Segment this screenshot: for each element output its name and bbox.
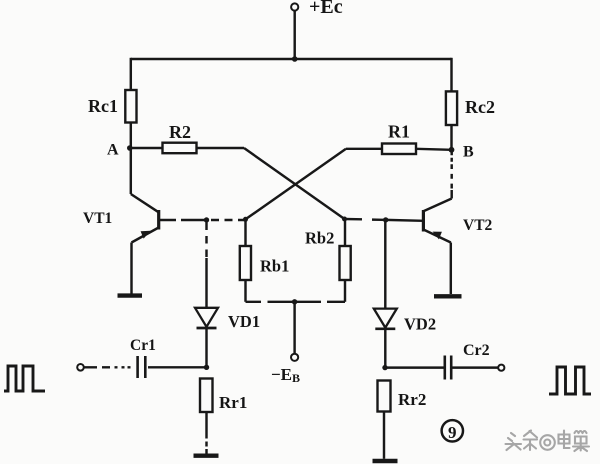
junction dot Rb2 node	[342, 217, 347, 222]
wire -EB rail	[246, 301, 346, 303]
svg-text:Rb2: Rb2	[305, 229, 334, 248]
resistor Rr2	[378, 381, 391, 412]
svg-text:Rr2: Rr2	[398, 390, 426, 409]
svg-text:Cr1: Cr1	[130, 337, 156, 354]
wire top rail	[131, 58, 452, 60]
resistor R1	[382, 144, 416, 155]
resistor R2	[163, 143, 197, 154]
wire diagonal R1 to VT1 base node	[246, 149, 347, 220]
svg-text:VT2: VT2	[463, 217, 493, 234]
wire R1 to cross-coupling diagonal	[346, 148, 382, 150]
wire Rb1 node down to Rb1	[244, 219, 246, 246]
svg-text:Rc1: Rc1	[88, 96, 118, 116]
wire VD2 to Cr2 junction	[384, 329, 386, 368]
wire VD2 drop from base line	[384, 220, 386, 308]
diode VD1	[195, 308, 218, 328]
wire node A down to VT1 collector	[130, 148, 132, 194]
svg-text:+Ec: +Ec	[309, 0, 343, 18]
wire VT1 collector diagonal	[131, 194, 159, 212]
wire Rb2 node down to Rb2	[344, 219, 346, 246]
wire Cr2 to output terminal	[453, 366, 499, 368]
resistor Rb1	[240, 246, 251, 280]
wire R2 to cross-coupling diagonal	[197, 147, 245, 149]
junction dot at VD2 tap on VT2 base line	[383, 217, 388, 222]
wire VT1 emitter down	[130, 243, 132, 294]
ground (below Rr2)	[373, 459, 398, 463]
wire Rc1 to node A	[130, 123, 132, 149]
ground (below Rr1)	[194, 454, 219, 458]
resistor Rr1	[200, 379, 213, 413]
wire -EB rail to terminal	[293, 302, 295, 354]
svg-text:R2: R2	[169, 122, 191, 142]
figure number 9 (circled)	[442, 420, 463, 442]
wire VD1 drop solid	[205, 258, 207, 308]
wire Rr1 to ground	[205, 412, 207, 454]
transistor VT1	[132, 210, 159, 243]
wire VT2 collector diagonal	[423, 199, 451, 212]
junction dot Rb1 node	[243, 217, 248, 222]
input terminal (left)	[77, 364, 84, 371]
wire Rc2 to node B	[450, 125, 452, 150]
power terminal +Ec	[291, 3, 298, 10]
wire Rr2 to ground	[383, 412, 385, 459]
svg-text:R1: R1	[388, 122, 410, 142]
ground (VT2 emitter)	[434, 294, 462, 298]
svg-text:9: 9	[448, 423, 457, 442]
diode VD2	[374, 309, 397, 329]
wire VT1 base lead segment	[181, 219, 207, 221]
ground (VT1 emitter)	[118, 293, 143, 297]
capacitor Cr1	[138, 356, 146, 378]
svg-text:Rc2: Rc2	[465, 97, 495, 117]
output square-wave symbol (right)	[549, 367, 591, 394]
resistor Rb2	[340, 246, 351, 280]
wire top rail to Rc1	[130, 58, 132, 90]
svg-text:−EB: −EB	[271, 365, 300, 385]
wire Rb2 down to -EB rail	[344, 280, 346, 302]
svg-text:VD2: VD2	[404, 315, 436, 334]
wire Rb1 down to -EB rail	[244, 280, 246, 302]
wire dashed VD1 drop from base line	[205, 223, 207, 259]
wire VD1 to Cr1 junction	[205, 328, 207, 367]
svg-text:Rr1: Rr1	[219, 393, 247, 412]
wire dashed input to Cr1	[85, 366, 131, 368]
output terminal (right)	[498, 365, 504, 371]
watermark 头条@电巢 (drawn as vector strokes)	[506, 431, 590, 452]
resistor Rc2	[446, 91, 457, 125]
wire node A to R2	[131, 147, 163, 149]
wire node B down (part dashed)	[450, 150, 452, 199]
svg-text:VD1: VD1	[228, 312, 260, 331]
wire VT1 base lead	[159, 219, 176, 221]
svg-text:A: A	[107, 142, 119, 159]
input square-wave symbol (left)	[4, 366, 45, 391]
svg-text:Rb1: Rb1	[260, 257, 289, 276]
power terminal -EB	[291, 354, 298, 361]
node B	[449, 147, 455, 153]
wire R1 to node B	[416, 149, 452, 150]
wire VT2 emitter down	[450, 243, 452, 295]
node A	[127, 145, 133, 151]
junction dot Cr1/Rr1 node	[204, 365, 209, 370]
junction dot at VD1 tap on VT1 base line	[204, 217, 209, 222]
junction dot on top rail	[292, 56, 298, 62]
wire junction to capacitor Cr2	[385, 366, 444, 368]
wire junction to capacitor Cr1	[148, 366, 207, 368]
svg-text:Cr2: Cr2	[463, 342, 490, 359]
wire VT2 base lead	[386, 219, 424, 222]
wire top rail to Rc2	[450, 58, 452, 92]
transistor VT2	[423, 210, 450, 243]
wire diagonal R2 to VT2 base line	[244, 148, 345, 219]
junction dot -EB rail	[292, 299, 297, 304]
junction dot Cr2/Rr2 node	[382, 365, 387, 370]
svg-text:B: B	[463, 144, 474, 161]
capacitor Cr2	[445, 356, 451, 380]
wire VT2 base line from Rb2 node	[345, 218, 386, 221]
wire dashed VT1 base line to Rb1 node	[211, 219, 246, 221]
resistor Rc1	[125, 90, 136, 123]
svg-text:VT1: VT1	[83, 210, 112, 227]
wire from +Ec terminal to top rail	[293, 11, 295, 59]
